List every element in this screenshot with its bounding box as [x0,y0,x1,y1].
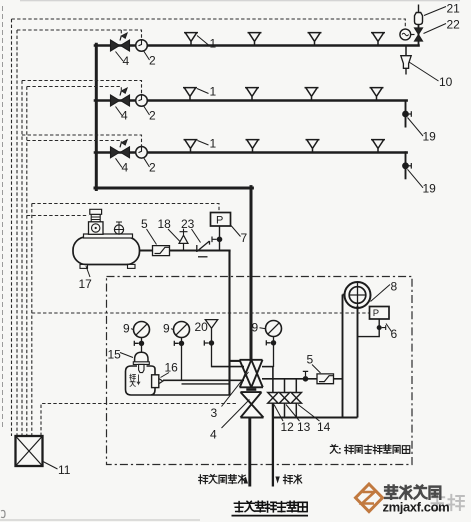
svg-text:16: 16 [165,361,179,375]
valve 14 stems [295,379,297,418]
svg-text:9: 9 [123,322,130,336]
exhaust valve 22 [414,28,422,41]
wire: elbow into alarm valve top [230,360,242,362]
vent valve on tank [114,225,123,234]
wire: alarm valve right tee at y366 [262,366,274,368]
label 1 branch1 with leader [197,36,209,46]
wire: branch2 signal lower [27,87,122,91]
drain valve 16 [152,375,159,388]
pressure switch 7 [211,213,231,227]
wire: gong riser [342,295,344,418]
label 16 leader [161,373,170,378]
label 21 leader [424,7,446,16]
test funnel 20 [205,320,217,329]
svg-text:20: 20 [195,320,209,334]
water flow indicator 2 branch 3 [136,147,148,159]
drain arrow [275,477,279,484]
svg-text:9: 9 [163,322,170,336]
watermark logo [356,484,383,512]
gauge 9 #1 stem and ball valve [134,338,141,353]
watermark 工程 (light) [430,495,464,510]
svg-text:9: 9 [252,321,259,335]
wire: test valve elbow to alarm valve [212,366,245,368]
svg-text:7: 7 [241,231,248,245]
wire: signal to pressure switch 7 [32,204,219,213]
sprinkler head 1 (branch1 #2) [248,33,262,45]
label 4 branch3 with leader [116,158,123,167]
dry pipe alarm valve 3 [240,360,264,390]
valve 13 stems [284,379,286,418]
drain valve 12 [268,393,278,404]
water motor gong 8 [345,282,371,308]
ball valve on test line [303,376,309,382]
label 8 leader [371,285,391,302]
svg-text:18: 18 [158,217,172,231]
svg-text:6: 6 [391,327,398,341]
pressure gauge at branch1 end [400,29,411,40]
water flow indicator 2 branch 1 [136,40,148,52]
wire: branch 1 pipe [95,44,419,47]
wire: drain pipe down [272,403,274,486]
wire: valve 12 stem [272,367,274,393]
gauge 9 #2 stem and ball valve [174,338,181,381]
air compressor tank 17 [73,237,140,265]
sprinkler head 1 (branch3 #4) [371,140,385,152]
wire: supply pipe down [248,418,251,487]
drain funnel 10 [405,47,407,57]
label 2 branch3 with leader [144,158,150,167]
signal control valve 4 (lower) [241,392,264,417]
pipe union 5 on compressor line [153,246,170,256]
svg-text:22: 22 [447,18,461,32]
svg-text:14: 14 [317,420,331,434]
pressure gauge 9 #3 [266,321,282,337]
text 排水 [283,475,301,484]
svg-text:1: 1 [210,137,217,151]
wire: test/drain line to gong riser [262,378,343,380]
svg-text:4: 4 [122,161,129,175]
svg-text:1: 1 [210,37,217,51]
svg-text:1: 1 [210,85,217,99]
label 7 leader [231,226,241,237]
label 17 leader [86,266,90,277]
svg-text:5: 5 [141,217,148,231]
wire: compressor outlet pipe [140,249,231,251]
svg-text:8: 8 [391,280,398,294]
label 23 leader [192,229,201,243]
sprinklers branch 1 (head 1) [184,33,198,45]
drain valve 14 [291,393,301,404]
sprinkler head 1 (branch2 #3) [305,88,319,100]
wire: exhauster loop [126,366,230,395]
branch2 end drop with drain test valve 19 [403,100,423,137]
wire: bottom drain header [273,416,358,418]
pipe union 5 (right) [317,374,334,384]
svg-text:2: 2 [149,161,156,175]
svg-text:4: 4 [210,428,217,442]
pressure switch 6 [370,307,390,320]
wire: signal to pressure switch 6 [32,312,370,314]
label 15 leader [120,353,133,358]
title 干式系统示意图 [234,501,307,512]
sprinkler head 1 (branch3 #2) [246,140,260,152]
svg-text:17: 17 [79,277,93,291]
watermark 智淼消防 [385,485,440,498]
fire alarm control panel 11 [16,436,43,466]
wire: main riser [95,44,98,189]
label 5 leader [312,365,321,374]
wire: branch 3 pipe [95,151,407,154]
svg-text:13: 13 [297,420,311,434]
svg-text:15: 15 [108,348,122,362]
wire: branch 2 pipe [95,99,407,102]
text 接消防供水 [199,475,246,484]
svg-text:P: P [216,215,223,227]
wire: pipe from 16 to alarm valve [163,379,244,381]
title underline [232,515,309,517]
svg-text:19: 19 [423,182,437,196]
wire: bus vertical 1 [11,19,13,436]
wire: branch3 signal lower [27,141,122,143]
svg-text:19: 19 [423,130,437,144]
svg-text:3: 3 [211,406,218,420]
wire: lower tie line [182,383,230,385]
sprinkler head 1 (branch3 #3) [306,140,320,152]
wire: main feed horizontal [95,187,252,190]
wire: bus vertical 4 [26,87,28,437]
wire: bus vertical 5 [31,204,33,437]
svg-text:zmjaxf.com: zmjaxf.com [383,500,450,515]
wire: main vertical to alarm valve [250,187,253,360]
svg-text:12: 12 [281,420,295,434]
drain valve 13 [279,393,289,404]
svg-text::: : [338,445,342,457]
wire: signal to control valve 4 [41,404,238,437]
wire: bus vertical 3 [21,81,23,437]
wire: gong drain down [357,306,359,418]
svg-text:4: 4 [121,109,128,123]
test valve 20 stem and ball [204,328,211,367]
sprinkler head 1 (branch1 #3) [308,33,322,45]
label 4 branch1 with leader [116,52,124,62]
label 2 branch2 with leader [144,107,150,116]
label 1 branch3 with leader [198,141,209,146]
label 18 leader [168,229,180,242]
sprinklers branch 2 [183,88,197,100]
compressor motor on tank [89,222,104,235]
svg-text:2: 2 [149,54,156,68]
signal butterfly valve 4 branch 1 [111,33,130,51]
ball valve under switch 7 [217,237,223,243]
svg-text:5: 5 [307,353,314,367]
svg-text:2: 2 [149,109,156,123]
sprinklers branch 3 [184,140,198,152]
safety valve 18 [179,235,188,249]
check valve 23 [197,241,210,252]
alarm valve group frame (dash-dot box) [107,277,413,465]
label 22 leader [424,24,447,34]
label 2 branch1 with leader [144,52,150,61]
label 4 leader [222,400,250,429]
pressure gauge 9 #1 [134,322,150,338]
label 3 leader [222,372,249,407]
label 6 leader [386,324,392,332]
label 11 leader [43,462,58,470]
sprinkler head 1 (branch2 #2) [245,88,259,100]
label 5 leader [147,229,157,245]
label 10 leader [409,62,439,81]
wire: bus vertical 2 [16,30,18,436]
pressure gauge 9 #2 [174,322,190,338]
note text 注:框内为报警阀组 [330,445,409,454]
svg-text:21: 21 [447,2,461,16]
label 1 branch2 with leader [197,89,209,94]
signal butterfly valve 4 branch 2 [111,88,130,106]
air vessel 21 [414,13,422,25]
wire: branch2 signal upper [22,81,142,95]
gauge 9 #3 stem and ball valve [266,337,273,368]
wire: signal to compressor motor [27,215,89,217]
supply arrow [244,477,248,484]
sprinkler head 1 (branch1 #4) [371,33,385,45]
svg-text:11: 11 [58,463,71,477]
wire: branch3 signal upper [22,135,142,146]
exhauster 15 (quick air release) [135,352,148,364]
wire: branch1 signal line [17,30,142,40]
scan edge artifacts [2,6,4,430]
svg-text:23: 23 [181,217,195,231]
water flow indicator 2 branch 2 [136,95,148,107]
signal wiring (dashed) [12,19,406,436]
wire: compressor line drop to alarm valve [228,251,230,396]
svg-text:4: 4 [123,54,130,68]
signal butterfly valve 4 branch 3 [111,140,130,158]
svg-text:P: P [373,308,379,319]
exhaust note box (排气) [130,374,140,386]
branch1 right riser to air vent [418,25,420,47]
label 4 branch2 with leader [116,107,123,116]
svg-text:10: 10 [439,75,453,89]
sprinkler head 1 (branch2 #4) [370,88,384,100]
wire: top signal line to end gauge [12,19,406,29]
labels 12 13 14 with leaders [274,405,283,422]
branch3 end drop with drain test valve 19 [403,151,423,188]
